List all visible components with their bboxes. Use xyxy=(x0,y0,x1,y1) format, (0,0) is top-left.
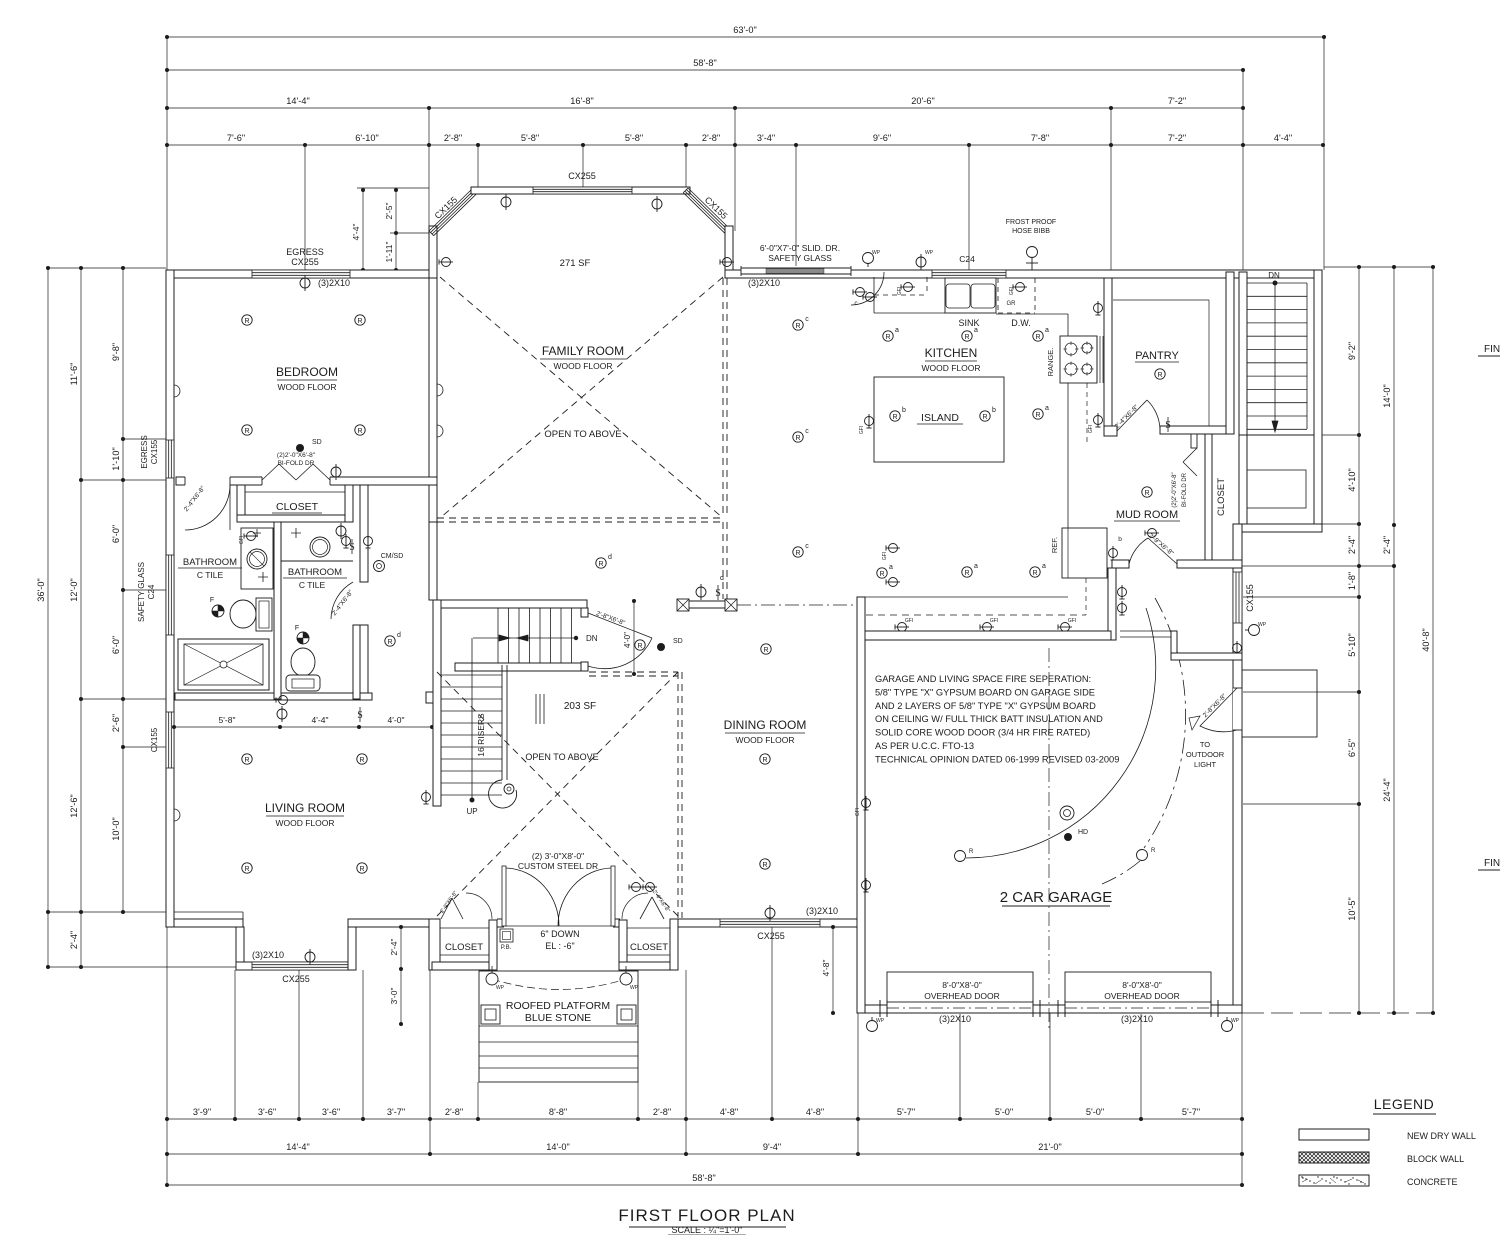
svg-text:OPEN TO ABOVE: OPEN TO ABOVE xyxy=(525,752,598,762)
svg-text:b: b xyxy=(1118,536,1122,543)
svg-text:R: R xyxy=(762,862,767,869)
pantry inner shelf lines xyxy=(1113,299,1209,301)
svg-text:WP: WP xyxy=(1231,1018,1240,1024)
right dim col 14'-0",2'-4",24'-4" xyxy=(1393,267,1395,1013)
svg-text:58'-8": 58'-8" xyxy=(693,58,716,68)
svg-text:20'-6": 20'-6" xyxy=(911,96,934,106)
entry threshold + door posts xyxy=(497,918,504,920)
svg-text:36'-0": 36'-0" xyxy=(36,578,46,601)
wall: bath divider xyxy=(274,522,281,699)
svg-text:R: R xyxy=(359,866,364,873)
dimension row 58'-8" xyxy=(167,69,1243,71)
svg-text:R: R xyxy=(763,647,768,654)
svg-text:CX255: CX255 xyxy=(568,171,596,181)
svg-text:DN: DN xyxy=(1268,271,1280,280)
svg-text:8'-0"X8'-0": 8'-0"X8'-0" xyxy=(1122,980,1162,990)
svg-text:C TILE: C TILE xyxy=(197,570,224,580)
svg-text:KITCHEN: KITCHEN xyxy=(925,346,978,360)
wall: pantry east xyxy=(1226,272,1234,434)
svg-text:CONCRETE: CONCRETE xyxy=(1407,1177,1458,1187)
wall: right exterior lower xyxy=(1233,524,1242,1013)
svg-text:9'-8": 9'-8" xyxy=(111,343,121,361)
dining receptacles xyxy=(760,754,770,764)
wall: living window bay south xyxy=(236,962,356,970)
svg-text:CLOSET: CLOSET xyxy=(1216,478,1227,516)
svg-text:DN: DN xyxy=(586,634,598,643)
svg-text:6'-0"X7'-0" SLID. DR.: 6'-0"X7'-0" SLID. DR. xyxy=(760,243,840,253)
svg-text:4'-8": 4'-8" xyxy=(720,1107,738,1117)
dimension row 63'-0" xyxy=(167,36,1324,38)
svg-text:203 SF: 203 SF xyxy=(564,701,596,712)
left dim col 9'-8"...10'-0" xyxy=(122,268,124,912)
svg-text:SCALE : ¼"=1'-0": SCALE : ¼"=1'-0" xyxy=(672,1225,743,1235)
bottom extension lines xyxy=(166,927,168,1185)
stair door frames xyxy=(581,608,588,617)
svg-text:2'-8": 2'-8" xyxy=(445,1107,463,1117)
svg-text:R: R xyxy=(637,643,642,650)
svg-text:R: R xyxy=(244,318,249,325)
stair rail xyxy=(501,665,503,780)
wall: living south step left xyxy=(236,927,244,970)
bay small dims 4'-4", 2'-5", 1'-11" xyxy=(357,187,429,189)
svg-text:R: R xyxy=(795,323,800,330)
svg-text:PANTRY: PANTRY xyxy=(1135,350,1179,362)
svg-text:WP: WP xyxy=(876,1018,885,1024)
wall: garage south xyxy=(858,1005,1242,1013)
REF xyxy=(1062,528,1107,578)
stairs landing line xyxy=(1247,434,1314,436)
svg-text:b: b xyxy=(902,407,906,414)
sliding door 6'-0"x7'-0" xyxy=(741,267,851,269)
kitchen lower counter line xyxy=(858,596,1068,598)
P.B. box xyxy=(500,929,513,942)
svg-text:a: a xyxy=(1045,405,1049,412)
wall: bedroom north xyxy=(166,270,437,278)
svg-text:R: R xyxy=(357,428,362,435)
svg-text:2'-8": 2'-8" xyxy=(702,133,720,143)
svg-text:a: a xyxy=(889,564,893,571)
window C24 above sink xyxy=(932,270,1006,278)
svg-text:(3)2X10: (3)2X10 xyxy=(806,906,838,916)
svg-text:CLOSET: CLOSET xyxy=(630,942,668,953)
svg-text:GFI: GFI xyxy=(239,536,245,544)
svg-text:WOOD FLOOR: WOOD FLOOR xyxy=(277,382,336,392)
svg-text:WP: WP xyxy=(872,250,881,256)
island xyxy=(874,377,1004,462)
sink xyxy=(945,278,996,313)
svg-text:14'-4": 14'-4" xyxy=(286,96,309,106)
svg-text:6'-0": 6'-0" xyxy=(111,525,121,543)
svg-text:BLUE STONE: BLUE STONE xyxy=(525,1012,591,1024)
svg-text:2'-8": 2'-8" xyxy=(653,1107,671,1117)
right dim col 9'-2"...10'-5" xyxy=(1358,267,1360,1013)
svg-text:5'-8": 5'-8" xyxy=(219,715,236,725)
svg-text:2'-8": 2'-8" xyxy=(444,133,462,143)
svg-text:GFI: GFI xyxy=(1068,618,1076,624)
svg-text:(2)2'-0"X6'-8": (2)2'-0"X6'-8" xyxy=(277,452,316,459)
svg-text:14'-0": 14'-0" xyxy=(1382,384,1392,407)
svg-text:WP: WP xyxy=(925,250,934,256)
svg-text:UP: UP xyxy=(466,807,477,816)
svg-text:R: R xyxy=(1151,848,1156,854)
svg-text:LEGEND: LEGEND xyxy=(1374,1096,1435,1112)
svg-text:5'-8": 5'-8" xyxy=(521,133,539,143)
kitchen east counter xyxy=(1067,314,1069,336)
dashed boundary: family SE vertical xyxy=(722,522,724,599)
stair lower-run treads xyxy=(441,674,502,676)
wall: bedroom east / family west xyxy=(429,278,437,522)
family room dashed boundary right xyxy=(722,278,724,518)
svg-text:(2)2'-0"X6'-8": (2)2'-0"X6'-8" xyxy=(1172,472,1178,507)
svg-text:HOSE BIBB: HOSE BIBB xyxy=(1012,228,1050,235)
svg-text:MUD ROOM: MUD ROOM xyxy=(1116,509,1178,521)
svg-text:R: R xyxy=(982,414,987,421)
svg-text:WP: WP xyxy=(1258,622,1267,628)
svg-text:16'-8": 16'-8" xyxy=(570,96,593,106)
svg-text:9'-4": 9'-4" xyxy=(763,1142,781,1152)
svg-text:C TILE: C TILE xyxy=(299,580,326,590)
window CX255 bay top xyxy=(533,187,632,194)
svg-text:3'-4": 3'-4" xyxy=(757,133,775,143)
wall: garage hall step walls xyxy=(1108,568,1116,640)
roofed platform xyxy=(479,971,638,1082)
stair UP arrow xyxy=(471,638,473,800)
svg-text:WOOD FLOOR: WOOD FLOOR xyxy=(553,361,612,371)
svg-text:9'-6": 9'-6" xyxy=(873,133,891,143)
svg-text:2 CAR GARAGE: 2 CAR GARAGE xyxy=(1000,889,1113,906)
living room receptacles xyxy=(242,754,252,764)
dishwasher xyxy=(997,278,999,313)
svg-text:a: a xyxy=(1045,327,1049,334)
svg-text:TECHNICAL OPINION DATED 06-: TECHNICAL OPINION DATED 06-1999 REVISED … xyxy=(875,754,1119,764)
svg-text:(3)2X10: (3)2X10 xyxy=(252,950,284,960)
svg-text:GFI: GFI xyxy=(1009,287,1015,295)
stair top-run treads xyxy=(497,608,499,663)
garage hall step into garage xyxy=(1120,630,1171,632)
wall: living south A xyxy=(166,919,243,927)
bi-fold door left closet xyxy=(441,898,452,919)
svg-text:FIN: FIN xyxy=(1484,344,1500,355)
platform posts xyxy=(481,1005,500,1024)
svg-text:7'-2": 7'-2" xyxy=(1168,133,1186,143)
svg-text:(2) 3'-0"X8'-0": (2) 3'-0"X8'-0" xyxy=(532,851,584,861)
svg-text:12'-6": 12'-6" xyxy=(69,794,79,817)
svg-text:ROOFED PLATFORM: ROOFED PLATFORM xyxy=(506,1000,610,1012)
closet (entry right) walls xyxy=(619,920,627,970)
svg-text:2'-5": 2'-5" xyxy=(384,203,394,220)
svg-text:F: F xyxy=(295,625,299,632)
svg-text:LIGHT: LIGHT xyxy=(1194,760,1217,769)
wall: bay right vertical xyxy=(725,226,733,278)
svg-text:4'-10": 4'-10" xyxy=(1347,468,1357,491)
svg-text:6'-10": 6'-10" xyxy=(355,133,378,143)
bottom dim row 2 xyxy=(167,1153,1242,1155)
svg-text:1'-10": 1'-10" xyxy=(111,447,121,470)
svg-text:b: b xyxy=(992,407,996,414)
living room sconce west xyxy=(174,809,180,821)
svg-text:4'-4": 4'-4" xyxy=(351,224,361,241)
receptacles family east xyxy=(793,320,803,330)
svg-text:WOOD FLOOR: WOOD FLOOR xyxy=(921,363,980,373)
svg-text:3'-6": 3'-6" xyxy=(258,1107,276,1117)
dashed boundary horizontal below stair door xyxy=(589,671,678,673)
wall: bay right angled + window CX155 xyxy=(688,188,732,231)
wall: stair mid xyxy=(455,663,581,671)
svg-text:NEW DRY WALL: NEW DRY WALL xyxy=(1407,1131,1476,1141)
svg-text:C24: C24 xyxy=(147,584,156,599)
svg-text:7'-2": 7'-2" xyxy=(1168,96,1186,106)
svg-text:ON CEILING W/ FULL THICK: ON CEILING W/ FULL THICK BATT INSULATION… xyxy=(875,714,1103,724)
stairs upper treads xyxy=(1247,282,1307,284)
garage hall GFIs xyxy=(1118,585,1127,599)
svg-text:SD: SD xyxy=(312,439,322,446)
svg-text:(3)2X10: (3)2X10 xyxy=(318,278,350,288)
dim 4'-8" at dining/garage xyxy=(832,927,834,1013)
svg-text:R: R xyxy=(1032,570,1037,577)
svg-text:OPEN TO ABOVE: OPEN TO ABOVE xyxy=(544,429,621,440)
garage NE step walls xyxy=(1171,631,1177,660)
dashed boundary vertical at dining west xyxy=(677,672,679,918)
sconce bedroom west xyxy=(174,385,180,397)
wall: bath east / hall west xyxy=(360,485,368,582)
right extension lines xyxy=(1324,266,1433,268)
receptacle + SD near stair xyxy=(596,558,606,568)
bath2 fan xyxy=(297,632,309,644)
svg-text:R: R xyxy=(387,639,392,646)
kitchen receptacles row a xyxy=(883,331,893,341)
svg-text:F: F xyxy=(210,597,214,604)
svg-text:3'-6": 3'-6" xyxy=(322,1107,340,1117)
wall: step at stairs bottom xyxy=(1242,524,1322,532)
window CX155 west living xyxy=(166,712,174,768)
svg-text:5'-8": 5'-8" xyxy=(625,133,643,143)
svg-text:R: R xyxy=(795,550,800,557)
svg-text:a: a xyxy=(895,327,899,334)
window EGRESS CX255 bedroom north xyxy=(252,270,350,278)
svg-text:4'-0": 4'-0" xyxy=(623,632,632,648)
closet (entry left) walls xyxy=(432,962,497,970)
svg-text:2'-6": 2'-6" xyxy=(111,714,121,732)
bath1 shower xyxy=(178,639,269,690)
svg-text:5/8" TYPE "X" GYPSUM BOARD: 5/8" TYPE "X" GYPSUM BOARD ON GARAGE SID… xyxy=(875,687,1095,697)
svg-text:GFI: GFI xyxy=(859,426,865,434)
svg-text:RANGE.: RANGE. xyxy=(1046,348,1055,377)
garage symbols xyxy=(1060,806,1074,820)
wall: pantry south xyxy=(1160,426,1234,434)
svg-text:BATHROOM: BATHROOM xyxy=(183,557,237,568)
svg-text:DINING ROOM: DINING ROOM xyxy=(724,718,807,732)
hall dim 5'-8" 4'-4" 4'-0" xyxy=(174,726,432,728)
svg-text:8'-0"X8'-0": 8'-0"X8'-0" xyxy=(942,980,982,990)
wall: living south step right xyxy=(348,927,356,970)
kitchen dashed counter xyxy=(874,294,927,296)
top extension lines xyxy=(166,37,168,270)
custom steel double doors xyxy=(502,866,506,926)
bedroom bifold doors xyxy=(262,476,330,486)
garage centerline xyxy=(1048,648,1050,1030)
dim 4'-0" at stair door xyxy=(633,601,635,674)
svg-text:CX155: CX155 xyxy=(150,439,159,464)
svg-text:GR: GR xyxy=(1007,301,1017,307)
bedroom receptacles xyxy=(242,315,252,325)
svg-text:FIN: FIN xyxy=(1484,858,1500,869)
bedroom closet walls xyxy=(237,485,245,522)
svg-text:AS PER U.C.C. FTO-13: AS PER U.C.C. FTO-13 xyxy=(875,741,974,751)
bi-fold door right closet xyxy=(640,897,652,919)
svg-text:4'-8": 4'-8" xyxy=(821,960,831,977)
wall: right exterior upper (stairs) xyxy=(1314,270,1322,532)
svg-text:R: R xyxy=(1144,490,1149,497)
svg-text:OVERHEAD DOOR: OVERHEAD DOOR xyxy=(1104,991,1180,1001)
svg-text:58'-8": 58'-8" xyxy=(692,1173,715,1183)
fire separation dashed line xyxy=(866,614,1086,616)
svg-text:SOLID CORE WOOD DOOR (3/4: SOLID CORE WOOD DOOR (3/4 HR FIRE RATED) xyxy=(875,728,1090,738)
svg-text:1'-11": 1'-11" xyxy=(384,241,394,262)
wall: kitchen/garage separation xyxy=(865,631,1111,640)
svg-text:a: a xyxy=(1042,563,1046,570)
wall: bedroom south xyxy=(176,477,437,485)
wall: west exterior xyxy=(166,270,174,927)
svg-text:4'-0": 4'-0" xyxy=(388,715,405,725)
hall receptacle d xyxy=(385,636,395,646)
counter below range xyxy=(1067,383,1069,578)
svg-text:10'-5": 10'-5" xyxy=(1347,897,1357,920)
svg-text:R: R xyxy=(879,571,884,578)
wall: bay top xyxy=(471,187,690,194)
svg-text:EGRESS: EGRESS xyxy=(140,435,149,468)
svg-text:40'-8": 40'-8" xyxy=(1421,628,1431,651)
svg-text:GARAGE AND LIVING SPACE FI: GARAGE AND LIVING SPACE FIRE SEPERATION: xyxy=(875,674,1091,684)
wall: dining south xyxy=(678,919,857,927)
window SAFETY GLASS C24 west xyxy=(166,555,174,635)
svg-text:(3)2X10: (3)2X10 xyxy=(748,278,780,288)
svg-text:d: d xyxy=(397,632,401,639)
svg-text:SAFETY GLASS: SAFETY GLASS xyxy=(137,562,146,622)
family room open-to-above X (dashed) xyxy=(440,277,723,518)
wall: hall west below family room xyxy=(429,522,437,600)
bath2 east wall nib xyxy=(353,625,360,699)
svg-text:LIVING ROOM: LIVING ROOM xyxy=(265,801,345,815)
garage overhead door 2 opening xyxy=(1065,1004,1211,1014)
svg-text:FROST PROOF: FROST PROOF xyxy=(1006,219,1056,226)
svg-text:BEDROOM: BEDROOM xyxy=(276,365,338,379)
wall: below stairs interior xyxy=(1239,435,1247,524)
svg-text:GFI: GFI xyxy=(905,618,913,624)
svg-text:a: a xyxy=(974,327,978,334)
wall: mudroom south xyxy=(1112,560,1129,568)
garage door posts xyxy=(1032,1000,1034,1017)
svg-text:14'-0": 14'-0" xyxy=(546,1142,569,1152)
smoke detector bedroom xyxy=(296,444,304,452)
concrete pad right side xyxy=(1242,670,1317,737)
svg-text:7'-8": 7'-8" xyxy=(1031,133,1049,143)
bath1 toilet xyxy=(230,600,256,628)
svg-text:R: R xyxy=(357,318,362,325)
svg-text:BI-FOLD DR: BI-FOLD DR xyxy=(278,460,315,467)
svg-text:SD: SD xyxy=(673,638,683,645)
stair door leaf + arc xyxy=(588,613,652,638)
dimension row 3 (14'-4",16'-8",20'-6",7'-2") xyxy=(167,107,1243,109)
svg-text:P.B.: P.B. xyxy=(501,945,512,951)
bedroom closet door opening xyxy=(185,476,230,486)
svg-text:2'-4": 2'-4" xyxy=(1382,536,1392,554)
dimension row 4 (7'-6" ... 4'-4") xyxy=(167,144,1323,146)
svg-text:CX155: CX155 xyxy=(150,727,159,752)
svg-text:2'-4": 2'-4" xyxy=(69,931,79,949)
svg-text:6" DOWN: 6" DOWN xyxy=(540,929,579,939)
wall: entry left vertical xyxy=(429,919,440,970)
bottom dim row 3 58'-8" xyxy=(167,1184,1242,1186)
window CX255 living south xyxy=(252,962,348,970)
svg-text:c: c xyxy=(805,316,809,323)
wall: stair enclosure west xyxy=(433,600,441,806)
svg-text:D.W.: D.W. xyxy=(1011,318,1031,328)
svg-text:(3)2X10: (3)2X10 xyxy=(1121,1014,1153,1024)
dim 2'-4"/3'-0" entry left xyxy=(400,927,402,1024)
svg-text:R: R xyxy=(795,435,800,442)
svg-text:3'-9": 3'-9" xyxy=(193,1107,211,1117)
left dim col 11'-6",12'-0",12'-6" xyxy=(80,268,82,967)
slider swing arc xyxy=(851,272,884,305)
svg-text:WOOD FLOOR: WOOD FLOOR xyxy=(275,818,334,828)
svg-text:R: R xyxy=(1035,412,1040,419)
svg-text:6'-0": 6'-0" xyxy=(111,636,121,654)
kitchen counter edge xyxy=(873,277,875,313)
svg-text:2'-4": 2'-4" xyxy=(389,939,399,956)
svg-text:GFI: GFI xyxy=(882,552,888,560)
svg-text:6'-5": 6'-5" xyxy=(1347,739,1357,757)
bath1 fan xyxy=(212,605,224,617)
svg-text:FIRST FLOOR PLAN: FIRST FLOOR PLAN xyxy=(618,1206,795,1225)
svg-text:CX155: CX155 xyxy=(1245,584,1255,612)
wall: baths south xyxy=(175,693,372,700)
svg-text:d: d xyxy=(608,554,612,561)
svg-text:CLOSET: CLOSET xyxy=(276,501,319,513)
window CX255 dining south xyxy=(720,919,820,927)
svg-text:GFI: GFI xyxy=(990,618,998,624)
svg-text:CUSTOM STEEL DR: CUSTOM STEEL DR xyxy=(518,861,598,871)
wall: living south B xyxy=(348,919,437,927)
svg-text:8'-8": 8'-8" xyxy=(549,1107,567,1117)
svg-text:4'-4": 4'-4" xyxy=(1274,133,1292,143)
svg-text:12'-0": 12'-0" xyxy=(69,578,79,601)
svg-text:HD: HD xyxy=(1078,829,1088,836)
svg-text:C24: C24 xyxy=(959,254,975,264)
svg-text:GFI: GFI xyxy=(1088,425,1094,433)
stair west wall nib xyxy=(426,692,433,703)
window CX155 right wall xyxy=(1233,572,1242,623)
svg-text:WP: WP xyxy=(630,985,639,991)
wall: stair enclosure north xyxy=(433,600,587,608)
interior line living south xyxy=(176,911,243,913)
svg-text:ISLAND: ISLAND xyxy=(921,412,959,424)
svg-text:R: R xyxy=(1157,372,1162,379)
svg-text:c: c xyxy=(805,428,809,435)
under-stair closet box xyxy=(1247,470,1306,508)
svg-text:5'-10": 5'-10" xyxy=(1347,633,1357,656)
svg-text:R: R xyxy=(892,414,897,421)
garage door swing arcs xyxy=(966,608,1156,858)
WP lights garage south xyxy=(867,1021,878,1032)
svg-text:OVERHEAD DOOR: OVERHEAD DOOR xyxy=(924,991,1000,1001)
svg-text:CX255: CX255 xyxy=(291,257,319,267)
left extension lines xyxy=(48,267,166,269)
wall: garage west / dining east xyxy=(857,597,865,1013)
svg-text:GFI: GFI xyxy=(855,808,861,816)
svg-text:a: a xyxy=(974,563,978,570)
svg-text:5'-0": 5'-0" xyxy=(995,1107,1013,1117)
svg-text:3'-7": 3'-7" xyxy=(387,1107,405,1117)
